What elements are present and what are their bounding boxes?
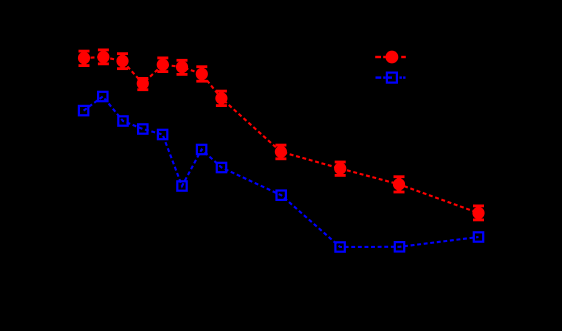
- point R8: [215, 92, 227, 104]
- point R9: [275, 146, 287, 158]
- red series dashed line: [84, 57, 479, 213]
- point R1: [78, 52, 90, 64]
- red error bars: [79, 50, 485, 220]
- legend sample: red series: [375, 51, 406, 64]
- error bar R5: [157, 58, 168, 72]
- point R12: [472, 207, 484, 219]
- point R6: [176, 61, 188, 73]
- red data points (filled circles): [78, 51, 485, 219]
- point B7: [197, 145, 206, 154]
- point B6: [177, 181, 186, 190]
- error bar R4: [137, 78, 148, 89]
- point R10: [334, 162, 346, 174]
- error bar R6: [177, 60, 188, 74]
- point B11: [395, 242, 404, 251]
- point B9: [277, 191, 286, 200]
- point R3: [116, 55, 128, 67]
- error bar R8: [216, 91, 227, 106]
- point R2: [97, 51, 109, 63]
- error bar R2: [98, 50, 109, 64]
- point B10: [335, 242, 344, 251]
- point R5: [157, 59, 169, 71]
- point B12: [474, 232, 483, 241]
- legend sample: blue series: [376, 73, 406, 83]
- point R4: [137, 77, 149, 89]
- blue series dashed line: [84, 97, 479, 248]
- point B5: [158, 130, 167, 139]
- error bar R10: [335, 162, 346, 175]
- error bar R7: [196, 67, 207, 82]
- error bar R3: [117, 54, 128, 69]
- error bar R12: [473, 206, 484, 220]
- point B2: [98, 92, 107, 101]
- point B4: [138, 124, 147, 133]
- blue data points (open squares): [79, 92, 483, 252]
- point B1: [79, 106, 88, 115]
- error bar R9: [275, 145, 286, 159]
- point B3: [118, 116, 127, 125]
- point R7: [196, 68, 208, 80]
- point B8: [217, 163, 226, 172]
- point R11: [393, 178, 405, 190]
- error bar R11: [394, 177, 405, 192]
- error bar R1: [79, 51, 90, 66]
